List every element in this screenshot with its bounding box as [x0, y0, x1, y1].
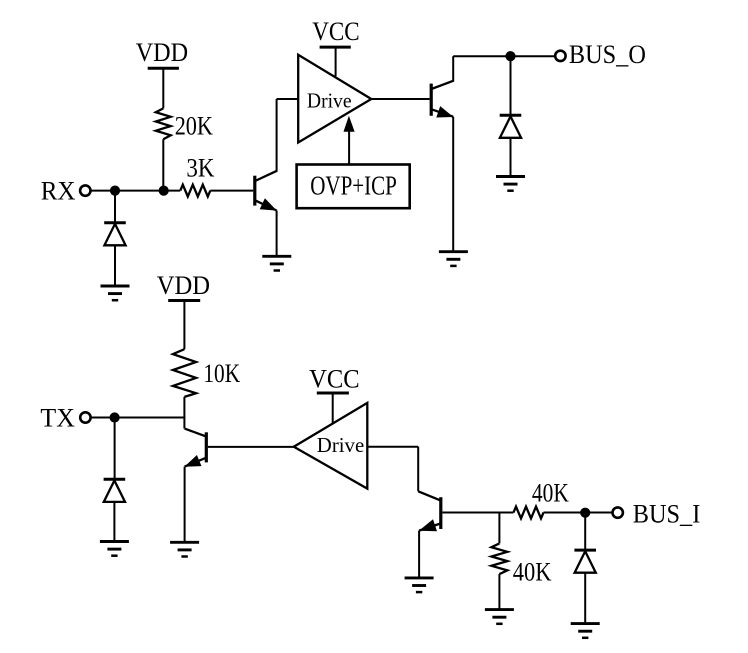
svg-text:10K: 10K — [203, 359, 240, 388]
svg-text:RX: RX — [41, 177, 76, 206]
svg-text:VDD: VDD — [136, 38, 188, 67]
svg-text:40K: 40K — [513, 558, 552, 587]
svg-text:VCC: VCC — [312, 17, 359, 46]
svg-text:BUS_O: BUS_O — [569, 40, 646, 69]
svg-text:VDD: VDD — [157, 271, 210, 300]
svg-text:3K: 3K — [186, 154, 214, 183]
svg-text:Drive: Drive — [307, 89, 352, 113]
svg-text:20K: 20K — [175, 112, 213, 141]
svg-text:40K: 40K — [532, 478, 569, 507]
svg-text:TX: TX — [40, 403, 75, 432]
svg-text:OVP+ICP: OVP+ICP — [310, 171, 397, 201]
svg-text:Drive: Drive — [317, 433, 364, 457]
svg-text:VCC: VCC — [309, 364, 360, 393]
svg-text:BUS_I: BUS_I — [633, 499, 701, 528]
